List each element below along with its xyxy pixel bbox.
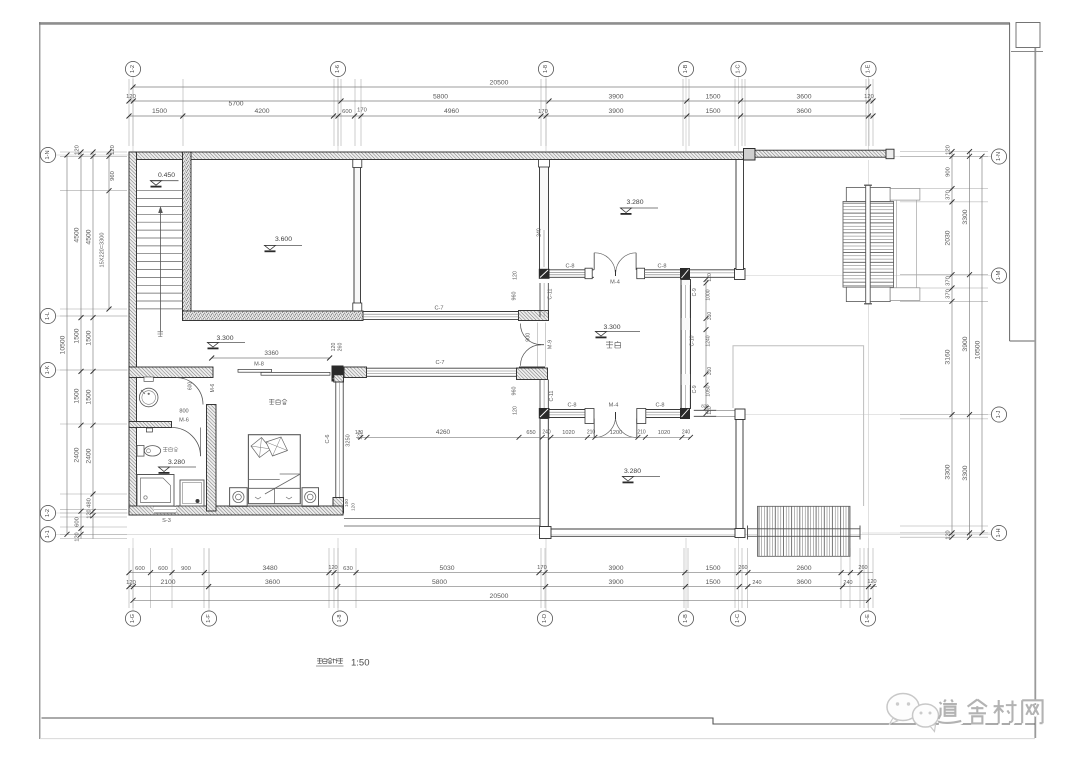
top dimension extension lines: [128, 79, 130, 146]
bed: [248, 435, 300, 504]
svg-text:C-11: C-11: [548, 288, 554, 299]
svg-text:3.600: 3.600: [275, 236, 292, 243]
nightstand right: [302, 488, 319, 507]
svg-text:1200: 1200: [610, 430, 622, 436]
svg-text:3300: 3300: [962, 465, 969, 480]
svg-text:900: 900: [525, 333, 531, 342]
page border: bottom line with step: [42, 718, 1036, 724]
svg-text:1-D: 1-D: [542, 614, 548, 623]
corner block lower-middle room NE: [735, 409, 745, 420]
parapet end cap: [886, 149, 894, 159]
svg-text:1500: 1500: [152, 108, 167, 115]
svg-text:3900: 3900: [608, 565, 623, 572]
svg-text:20500: 20500: [490, 80, 509, 87]
svg-text:C-8: C-8: [655, 403, 664, 409]
svg-text:M-4: M-4: [610, 280, 620, 286]
page border: bottom faint line: [40, 738, 1035, 740]
right dim mid chain: [969, 152, 971, 538]
svg-text:120: 120: [707, 406, 713, 415]
svg-text:C-9: C-9: [692, 288, 698, 296]
bedroom label: [269, 399, 274, 404]
svg-text:120: 120: [110, 145, 116, 155]
svg-text:4260: 4260: [436, 429, 451, 436]
svg-text:240: 240: [682, 430, 691, 436]
window segment to east wall (upper row): [690, 269, 736, 271]
svg-text:1-N: 1-N: [996, 152, 1002, 161]
svg-text:260: 260: [338, 343, 344, 352]
svg-text:10500: 10500: [975, 340, 982, 359]
top grid bubbles: [125, 61, 140, 76]
svg-text:1-M: 1-M: [996, 270, 1002, 280]
svg-text:3300: 3300: [962, 209, 969, 224]
svg-text:1-B: 1-B: [683, 64, 689, 73]
svg-text:1:50: 1:50: [351, 658, 370, 669]
svg-text:120: 120: [946, 530, 952, 539]
svg-text:C-6: C-6: [325, 434, 331, 443]
corridor bottom C-7 window: [367, 367, 520, 369]
stair arrow: [160, 208, 162, 331]
corridor top right pier: [519, 311, 549, 321]
watermark text 道舍村网 (drawn): [939, 701, 1044, 725]
svg-text:2400: 2400: [74, 447, 81, 462]
bottom dim row 2: [129, 586, 877, 588]
column at axis 1-6: [332, 366, 344, 382]
svg-text:5700: 5700: [228, 101, 243, 108]
svg-text:1500: 1500: [74, 388, 81, 403]
svg-text:1-G: 1-G: [130, 614, 136, 623]
svg-text:3.300: 3.300: [603, 324, 620, 331]
svg-text:5030: 5030: [439, 565, 454, 572]
watermark icon (chat bubbles): [887, 694, 939, 732]
column lower row: [680, 408, 690, 419]
bedroom east wall bottom pier: [333, 498, 344, 514]
svg-text:1-1: 1-1: [45, 530, 51, 538]
svg-text:240: 240: [542, 430, 551, 436]
pergola central rail: [866, 185, 871, 304]
shower tray: [137, 475, 174, 507]
svg-text:240: 240: [537, 228, 543, 237]
column hall west wall upper: [539, 269, 550, 279]
bottom dim row 1: [129, 572, 873, 574]
svg-text:1500: 1500: [86, 389, 93, 404]
svg-text:C-7: C-7: [435, 360, 444, 366]
svg-text:1050: 1050: [706, 385, 712, 396]
svg-text:3.280: 3.280: [168, 459, 185, 466]
svg-text:3900: 3900: [962, 336, 969, 351]
svg-text:1-L: 1-L: [45, 312, 51, 320]
upper C-8 window row left: [550, 269, 595, 271]
right dimension extension lines: [900, 151, 988, 153]
M-9 door (double swing): [537, 323, 539, 367]
pergola top tab: [846, 187, 890, 201]
exterior wall: top (hatched): [129, 152, 745, 160]
svg-text:1-K: 1-K: [45, 365, 51, 374]
svg-text:600: 600: [158, 566, 168, 572]
svg-text:3160: 3160: [945, 349, 952, 364]
left dim inner chain: [92, 152, 94, 539]
svg-text:630: 630: [343, 566, 353, 572]
washing machine: [180, 480, 204, 506]
svg-text:120: 120: [126, 94, 136, 100]
corridor bottom right pier: [520, 367, 545, 378]
svg-text:3600: 3600: [796, 579, 811, 586]
svg-text:1-2: 1-2: [130, 65, 136, 73]
lower C-8 window row left: [550, 409, 586, 411]
svg-text:120: 120: [331, 343, 337, 352]
svg-text:120: 120: [75, 532, 81, 541]
hall west wall lower segment: [540, 419, 548, 527]
long grid line row 1-1: [56, 533, 991, 535]
svg-text:1-B: 1-B: [683, 614, 689, 623]
svg-text:1-8: 1-8: [543, 65, 549, 73]
svg-text:3.280: 3.280: [626, 199, 643, 206]
bathroom east wall: [207, 405, 217, 512]
svg-text:120: 120: [513, 271, 519, 280]
svg-text:120: 120: [328, 565, 337, 571]
C-6 window: [335, 382, 337, 498]
svg-text:260: 260: [858, 565, 867, 571]
svg-text:1-C: 1-C: [735, 614, 741, 623]
svg-text:650: 650: [526, 430, 535, 436]
svg-text:C-8: C-8: [657, 264, 666, 270]
column hall west wall lower: [539, 408, 550, 419]
left dim outer (10500): [66, 155, 68, 534]
lower C-8 window row right: [637, 409, 646, 424]
mid dim chain y=437: [356, 436, 691, 438]
svg-text:C-9: C-9: [692, 385, 698, 393]
page border: top bar: [39, 22, 1010, 25]
hall bottom edge: [344, 518, 540, 520]
svg-text:120: 120: [513, 406, 519, 415]
grid axis verticals (faint): [132, 77, 134, 151]
svg-text:2600: 2600: [796, 565, 811, 572]
svg-text:3900: 3900: [608, 108, 623, 115]
bedroom east wall column+pier: [334, 366, 344, 375]
svg-text:240: 240: [843, 580, 852, 586]
lower-middle room east wall: [736, 420, 743, 529]
pergola bottom tab: [846, 287, 890, 302]
C-11 window lower: [539, 380, 541, 409]
svg-text:3.300: 3.300: [216, 335, 233, 342]
pillows: [251, 438, 271, 458]
svg-text:5800: 5800: [433, 94, 448, 101]
svg-text:600: 600: [135, 566, 145, 572]
svg-text:1-6: 1-6: [335, 65, 341, 73]
sliding door M-8: [238, 369, 272, 372]
svg-text:2030: 2030: [945, 230, 952, 245]
hall west wall upper segment: [540, 160, 549, 270]
svg-text:3600: 3600: [796, 94, 811, 101]
svg-text:960: 960: [511, 292, 517, 301]
svg-text:1500: 1500: [705, 108, 720, 115]
page border: left line: [39, 22, 41, 739]
svg-text:M-9: M-9: [548, 340, 554, 349]
svg-text:M-6: M-6: [210, 383, 216, 392]
svg-text:900: 900: [181, 566, 191, 572]
top dim row 1 (20500): [133, 86, 869, 88]
svg-text:3.280: 3.280: [624, 468, 641, 475]
svg-text:1-E: 1-E: [865, 614, 871, 623]
svg-text:1-F: 1-F: [206, 614, 212, 623]
svg-text:0.450: 0.450: [158, 172, 175, 179]
svg-text:240: 240: [752, 580, 761, 586]
C-11 window upper: [539, 283, 541, 317]
svg-text:1500: 1500: [74, 328, 81, 343]
svg-text:2400: 2400: [86, 448, 93, 463]
exterior wall: left (hatched): [129, 152, 137, 515]
svg-text:3600: 3600: [796, 108, 811, 115]
svg-text:4500: 4500: [74, 227, 81, 242]
small window right of column (lower row): [694, 409, 717, 411]
svg-text:C-7: C-7: [434, 306, 443, 312]
svg-text:3480: 3480: [262, 565, 277, 572]
left dim mid chain: [80, 152, 82, 539]
svg-text:1500: 1500: [86, 330, 93, 345]
svg-text:1500: 1500: [705, 565, 720, 572]
grid axis horizontals (faint): [56, 154, 128, 156]
svg-text:310: 310: [707, 367, 713, 376]
top dim row 2: [129, 100, 873, 102]
column hall NE: [680, 268, 690, 280]
shelf in sink room: [144, 377, 153, 381]
big room bottom wall (stippled): [183, 311, 364, 321]
svg-text:1500: 1500: [705, 94, 720, 101]
svg-text:800: 800: [179, 409, 188, 415]
svg-text:120: 120: [75, 145, 81, 155]
svg-text:170: 170: [357, 108, 367, 114]
pergola right rails: [896, 200, 898, 288]
svg-text:5800: 5800: [432, 579, 447, 586]
svg-text:1000: 1000: [706, 289, 712, 300]
svg-text:120: 120: [867, 579, 876, 585]
svg-text:600: 600: [342, 109, 352, 115]
svg-text:1-N: 1-N: [45, 150, 51, 159]
wall end block at top-right: [744, 149, 756, 161]
louver slat block: [758, 506, 851, 556]
svg-text:M-4: M-4: [609, 403, 619, 409]
svg-text:M-8: M-8: [254, 362, 264, 368]
svg-text:120: 120: [87, 509, 93, 518]
corridor bottom wall left segment (hatched): [129, 367, 213, 378]
svg-text:1-8: 1-8: [337, 614, 343, 622]
drawing title (fake glyphs): [317, 658, 322, 663]
hall east dim chain: [705, 279, 707, 414]
right grid bubbles: [991, 149, 1006, 164]
svg-text:900: 900: [946, 167, 952, 177]
svg-text:C-8: C-8: [567, 403, 576, 409]
svg-text:170: 170: [537, 565, 547, 571]
svg-text:10500: 10500: [60, 335, 67, 354]
svg-text:120: 120: [351, 503, 357, 511]
lower-middle room bottom wall: [551, 528, 735, 530]
hall room label: [606, 341, 613, 348]
bottom grid bubbles: [125, 611, 140, 626]
page border: right inner line: [1009, 23, 1011, 341]
nightstand left: [230, 488, 248, 507]
svg-text:C-8: C-8: [565, 264, 574, 270]
svg-text:1500: 1500: [705, 579, 720, 586]
svg-text:260: 260: [738, 565, 747, 571]
hall east wall with C-9/C-10 windows: [681, 280, 691, 409]
svg-text:3360: 3360: [264, 350, 279, 357]
corridor bottom pier right of column: [344, 367, 367, 378]
stair treads: [137, 190, 183, 192]
svg-text:120: 120: [946, 145, 952, 155]
svg-text:600: 600: [75, 517, 81, 527]
louver beam: [748, 529, 861, 537]
toilet: [137, 446, 144, 457]
svg-text:4200: 4200: [254, 108, 269, 115]
svg-text:120: 120: [707, 273, 713, 282]
svg-text:1-C: 1-C: [736, 64, 742, 73]
svg-text:120: 120: [126, 580, 136, 586]
bottom dimension extension lines: [128, 548, 130, 608]
svg-text:370: 370: [946, 276, 952, 286]
left dimension extension lines: [60, 151, 127, 153]
pergola slat block: [843, 202, 894, 288]
door M-6 lower arc: [172, 428, 201, 457]
left stair dim chain: [108, 152, 110, 309]
svg-text:960: 960: [110, 171, 116, 181]
hall west wall bottom cap: [540, 527, 552, 539]
top dim row 3: [129, 115, 873, 117]
svg-text:120: 120: [358, 431, 364, 440]
stair wall (stippled): [183, 152, 192, 311]
right dim inner chain: [951, 152, 953, 538]
svg-text:210: 210: [587, 430, 596, 436]
svg-text:370: 370: [946, 190, 952, 200]
svg-text:170: 170: [538, 109, 548, 115]
svg-text:120: 120: [864, 94, 874, 100]
svg-text:3600: 3600: [265, 579, 280, 586]
page border: top-right small box: [1016, 23, 1040, 48]
svg-text:4500: 4500: [86, 229, 93, 244]
svg-text:480: 480: [87, 498, 93, 508]
door M-6 upper arc: [176, 378, 203, 405]
left grid bubbles: [40, 147, 55, 162]
svg-text:3300: 3300: [945, 464, 952, 479]
svg-text:4960: 4960: [444, 108, 459, 115]
svg-text:370: 370: [946, 289, 952, 299]
door M-4 lower: [593, 419, 595, 438]
svg-text:310: 310: [707, 312, 713, 321]
svg-text:1020: 1020: [658, 430, 670, 436]
svg-text:210: 210: [637, 430, 646, 436]
toilet room label: [163, 447, 168, 452]
svg-text:100: 100: [344, 499, 350, 507]
svg-text:15X220=3300: 15X220=3300: [100, 233, 106, 268]
right dim outer (10500): [981, 156, 983, 533]
svg-text:C-10: C-10: [689, 335, 695, 346]
bottom exterior wall (hatched): [129, 506, 343, 515]
svg-text:600: 600: [188, 382, 194, 391]
svg-text:3250: 3250: [346, 434, 352, 446]
svg-text:1-H: 1-H: [996, 528, 1002, 537]
upper-right room east wall: [736, 160, 744, 270]
svg-text:1240: 1240: [706, 335, 712, 346]
upper C-8 window row right: [637, 268, 645, 279]
terrace outline faint: [733, 346, 864, 506]
wash basin: [139, 388, 158, 407]
door M-4 upper: [593, 253, 595, 270]
svg-text:20500: 20500: [490, 593, 509, 600]
big room right wall: [354, 160, 361, 312]
svg-text:2100: 2100: [160, 579, 175, 586]
bathroom divider wall: [129, 422, 172, 428]
svg-text:3900: 3900: [608, 579, 623, 586]
hall west wall pier row2: [517, 368, 548, 380]
corridor top C-7 window: [363, 311, 519, 313]
bottom dim row 3 (20500): [133, 599, 869, 601]
svg-text:C-11: C-11: [549, 390, 555, 401]
C-5 window gap in bottom wall: [154, 505, 176, 513]
svg-text:1-E: 1-E: [866, 64, 872, 73]
svg-text:1-2: 1-2: [45, 509, 51, 517]
svg-text:3900: 3900: [608, 94, 623, 101]
page border: right outer gray line: [1034, 48, 1036, 738]
svg-text:S-3: S-3: [162, 518, 171, 524]
svg-text:M-6: M-6: [179, 418, 189, 424]
svg-text:960: 960: [511, 387, 517, 396]
svg-text:1-J: 1-J: [996, 410, 1002, 418]
svg-text:1020: 1020: [562, 430, 574, 436]
parapet strip top right: [755, 150, 886, 157]
